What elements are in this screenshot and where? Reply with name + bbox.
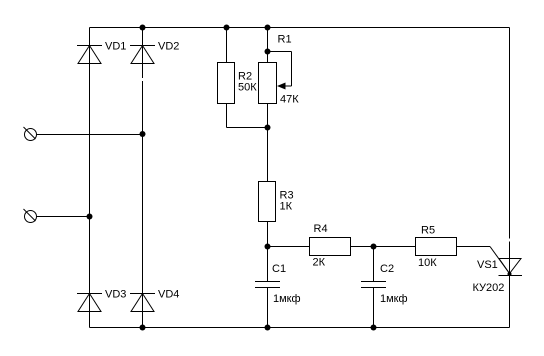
wire top bus xyxy=(90,27,510,29)
wire left column VD1/VD3 xyxy=(89,28,91,328)
thyristor VS1 xyxy=(499,259,523,276)
svg-text:50К: 50К xyxy=(238,82,257,94)
wire right bus upper xyxy=(509,28,511,239)
node terminal1 / VD2 column xyxy=(140,131,146,137)
wire R2 bottom xyxy=(226,104,228,128)
wire R1 wiper vertical xyxy=(291,52,293,87)
node thyristor gate/cathode xyxy=(508,272,512,276)
potentiometer R1 wiper arrowhead xyxy=(277,83,286,90)
resistor R2 xyxy=(218,63,235,104)
svg-text:C2: C2 xyxy=(380,263,394,275)
wire bottom bus xyxy=(90,327,510,329)
wire terminal 2 to node xyxy=(37,216,90,218)
svg-text:КУ202: КУ202 xyxy=(473,282,505,294)
wire R1 wiper arrow lead xyxy=(283,85,292,87)
svg-text:VD4: VD4 xyxy=(158,289,179,301)
wire VD2/VD4 column upper xyxy=(142,28,144,79)
wire C2 bottom plate to bottom bus xyxy=(373,288,375,328)
wire right bus to thyristor anode xyxy=(509,242,511,276)
diode VD2 xyxy=(130,46,155,64)
svg-text:VD1: VD1 xyxy=(105,41,126,53)
wire node to R4 left xyxy=(268,246,310,248)
node top bus / R1 xyxy=(265,25,271,31)
svg-text:1мкф: 1мкф xyxy=(273,293,301,305)
capacitor C2 xyxy=(361,282,386,288)
node R3/R4/C1 xyxy=(265,244,271,250)
svg-text:1мкф: 1мкф xyxy=(380,293,408,305)
node terminal2 / VD1 column xyxy=(87,214,93,220)
terminal X2 xyxy=(24,209,37,223)
wire R2 to R1 jog xyxy=(227,127,268,129)
wire node to C2 top plate xyxy=(373,247,375,282)
resistor R3 xyxy=(259,182,276,222)
wire R2 top xyxy=(226,28,228,63)
node R2/R1 junction xyxy=(265,125,271,131)
wire node to C1 top plate xyxy=(267,247,269,282)
potentiometer R1 body xyxy=(259,63,277,104)
wire VD2/VD4 column lower xyxy=(142,81,144,328)
svg-text:VS1: VS1 xyxy=(477,259,498,271)
wire node to R5 left xyxy=(374,246,416,248)
wire R1 wiper tap horizontal xyxy=(268,51,292,53)
diode VD3 xyxy=(77,294,102,312)
node C2 / bottom bus xyxy=(371,325,377,331)
wire R1 bottom to R3 top xyxy=(267,104,269,182)
svg-text:47К: 47К xyxy=(280,94,299,106)
wire right bus lower (thyristor cathode to bottom bus) xyxy=(509,276,511,328)
node R4/R5/C2 xyxy=(371,244,377,250)
svg-text:2К: 2К xyxy=(313,257,326,269)
node top bus / VD2 column xyxy=(140,25,146,31)
svg-text:VD3: VD3 xyxy=(105,289,126,301)
wire C1 bottom plate to bottom bus xyxy=(267,288,269,328)
svg-text:R1: R1 xyxy=(278,34,292,46)
wire thyristor gate diagonal xyxy=(490,247,510,274)
node R1 wiper tap xyxy=(265,49,271,55)
capacitor C1 xyxy=(255,282,280,288)
wire R3 bottom to node xyxy=(267,222,269,247)
svg-text:C1: C1 xyxy=(272,263,286,275)
wire R4 right to node xyxy=(351,246,374,248)
wire R1 top xyxy=(267,28,269,63)
resistor R5 xyxy=(416,238,457,256)
terminal X1 xyxy=(24,127,37,141)
diode VD4 xyxy=(130,294,155,312)
svg-text:R5: R5 xyxy=(421,225,435,237)
node C1 / bottom bus xyxy=(265,325,271,331)
svg-text:R4: R4 xyxy=(314,223,328,235)
svg-text:1К: 1К xyxy=(280,201,293,213)
diode VD1 xyxy=(77,46,102,64)
svg-text:10К: 10К xyxy=(418,257,437,269)
node top bus / R2 xyxy=(224,25,230,31)
wire R5 right to gate bend xyxy=(457,246,491,248)
svg-text:VD2: VD2 xyxy=(158,41,179,53)
resistor R4 xyxy=(310,238,351,256)
wire terminal 1 to node xyxy=(37,134,143,136)
node VD4 / bottom bus xyxy=(140,325,146,331)
